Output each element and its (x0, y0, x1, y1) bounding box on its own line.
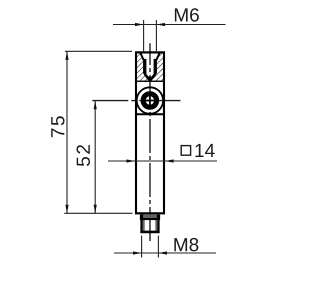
cross hole thick ring (143, 94, 157, 108)
square-14 arrowhead left (126, 159, 135, 162)
M6 arrowhead right (156, 23, 165, 26)
75 arrowhead bottom (65, 205, 68, 214)
edge line below circle (135, 113, 165, 115)
centerline vertical (149, 43, 151, 242)
thread major lines (thin) (143, 60, 145, 74)
M6 chamfer slants (141, 53, 144, 60)
stud minor thread lines (143, 220, 145, 231)
bottom extension line (75/52) (64, 212, 132, 214)
body outline (136, 52, 164, 214)
52 dimension line (94, 101, 96, 214)
drill point V (145, 74, 156, 81)
top extension line (75) (65, 50, 132, 52)
M6 arrowhead left (135, 23, 144, 26)
cross hole outer circle (137, 87, 163, 113)
M6 dimension (143, 20, 145, 51)
14 label text (195, 144, 214, 157)
75 arrowhead top (65, 51, 68, 60)
shoulder bottom edge (135, 212, 165, 214)
stud thread outline (142, 219, 159, 232)
52 arrowhead top (94, 101, 97, 110)
52 text (77, 145, 91, 166)
75 dimension line (66, 51, 68, 213)
M8 label text (174, 238, 198, 252)
M8 dimension (141, 236, 143, 258)
stud collar (thread relief groove) (140, 214, 160, 218)
M8 arrowhead left (133, 251, 142, 254)
centerline horizontal / 52 extension line (92, 100, 180, 102)
stud thread top band (140, 218, 160, 220)
52 arrowhead bottom (94, 205, 97, 214)
top edge (135, 51, 165, 53)
M6 label text (175, 8, 199, 22)
center cross mark (146, 100, 155, 102)
drill hole walls (thick) (144, 59, 146, 74)
M8 arrowhead right (158, 251, 167, 254)
section break line (135, 80, 165, 82)
75 text (51, 116, 64, 137)
square-14 arrowhead right (165, 159, 174, 162)
square-14 dimension (108, 160, 217, 162)
square symbol (181, 146, 190, 156)
hatched section area (136, 53, 164, 81)
